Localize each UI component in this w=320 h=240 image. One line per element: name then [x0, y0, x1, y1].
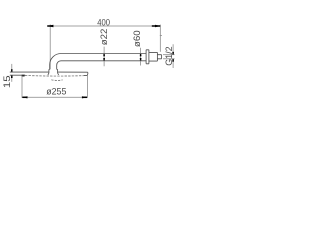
head bottom rim edge — [10, 74, 88, 76]
arrow left of 400 dim — [47, 25, 54, 27]
arrow up to head bottom — [11, 75, 13, 78]
svg-text:15: 15 — [2, 76, 12, 89]
elbow outer curve — [50, 54, 61, 70]
dimension line 400 — [47, 25, 160, 27]
wall flange ring — [146, 50, 149, 64]
15 dim upper line — [11, 64, 13, 72]
arrow down to head top — [11, 69, 13, 72]
svg-text:G1/2: G1/2 — [164, 46, 174, 65]
arrow up of dia60 — [140, 54, 142, 57]
elbow inner curve — [57, 61, 61, 70]
arrow down of dia60 — [140, 58, 142, 61]
hidden spray face dashed arc — [25, 75, 84, 78]
svg-text:400: 400 — [97, 18, 110, 28]
G1/2 dim upper line — [172, 44, 174, 55]
arm tube top line — [61, 53, 146, 55]
arm tube bottom line — [61, 60, 146, 62]
threaded stub G1/2 — [157, 55, 161, 59]
hidden inlet boss dashed — [51, 79, 62, 82]
flange cylinder — [149, 52, 158, 61]
svg-text:ø255: ø255 — [46, 87, 66, 97]
arrow up to stub bottom — [172, 59, 174, 62]
extension tick bottom of G1/2 dim — [163, 58, 175, 60]
head top edge — [10, 71, 88, 73]
extension line right (wall end up to 400 dim) — [159, 25, 161, 52]
15 dim lower line — [11, 75, 13, 82]
dia255 dimension line — [22, 96, 87, 98]
arrow right of 400 dim — [155, 25, 161, 27]
dimension diameter 60 line — [140, 48, 142, 66]
arrow down to stub top — [172, 52, 174, 55]
arrow down of dia22 — [103, 58, 105, 61]
arrow up of dia22 — [103, 54, 105, 57]
arrow right of dia255 — [82, 96, 88, 98]
head right edge — [86, 72, 89, 75]
dimension diameter 22 line — [103, 47, 105, 67]
dia255 extension line right — [86, 76, 88, 98]
head left corner nub — [22, 75, 25, 77]
svg-text:ø60: ø60 — [132, 30, 142, 47]
extension tick top of G1/2 dim — [163, 54, 175, 56]
arrow left of dia255 — [22, 96, 28, 98]
extension line left (head centerline up to 400 dim) — [49, 24, 51, 69]
head connector nut — [48, 69, 59, 75]
dia255 extension line left — [21, 76, 23, 98]
G1/2 dim lower line — [172, 59, 174, 68]
small tick on right extension — [160, 35, 162, 37]
svg-text:ø22: ø22 — [99, 29, 109, 46]
